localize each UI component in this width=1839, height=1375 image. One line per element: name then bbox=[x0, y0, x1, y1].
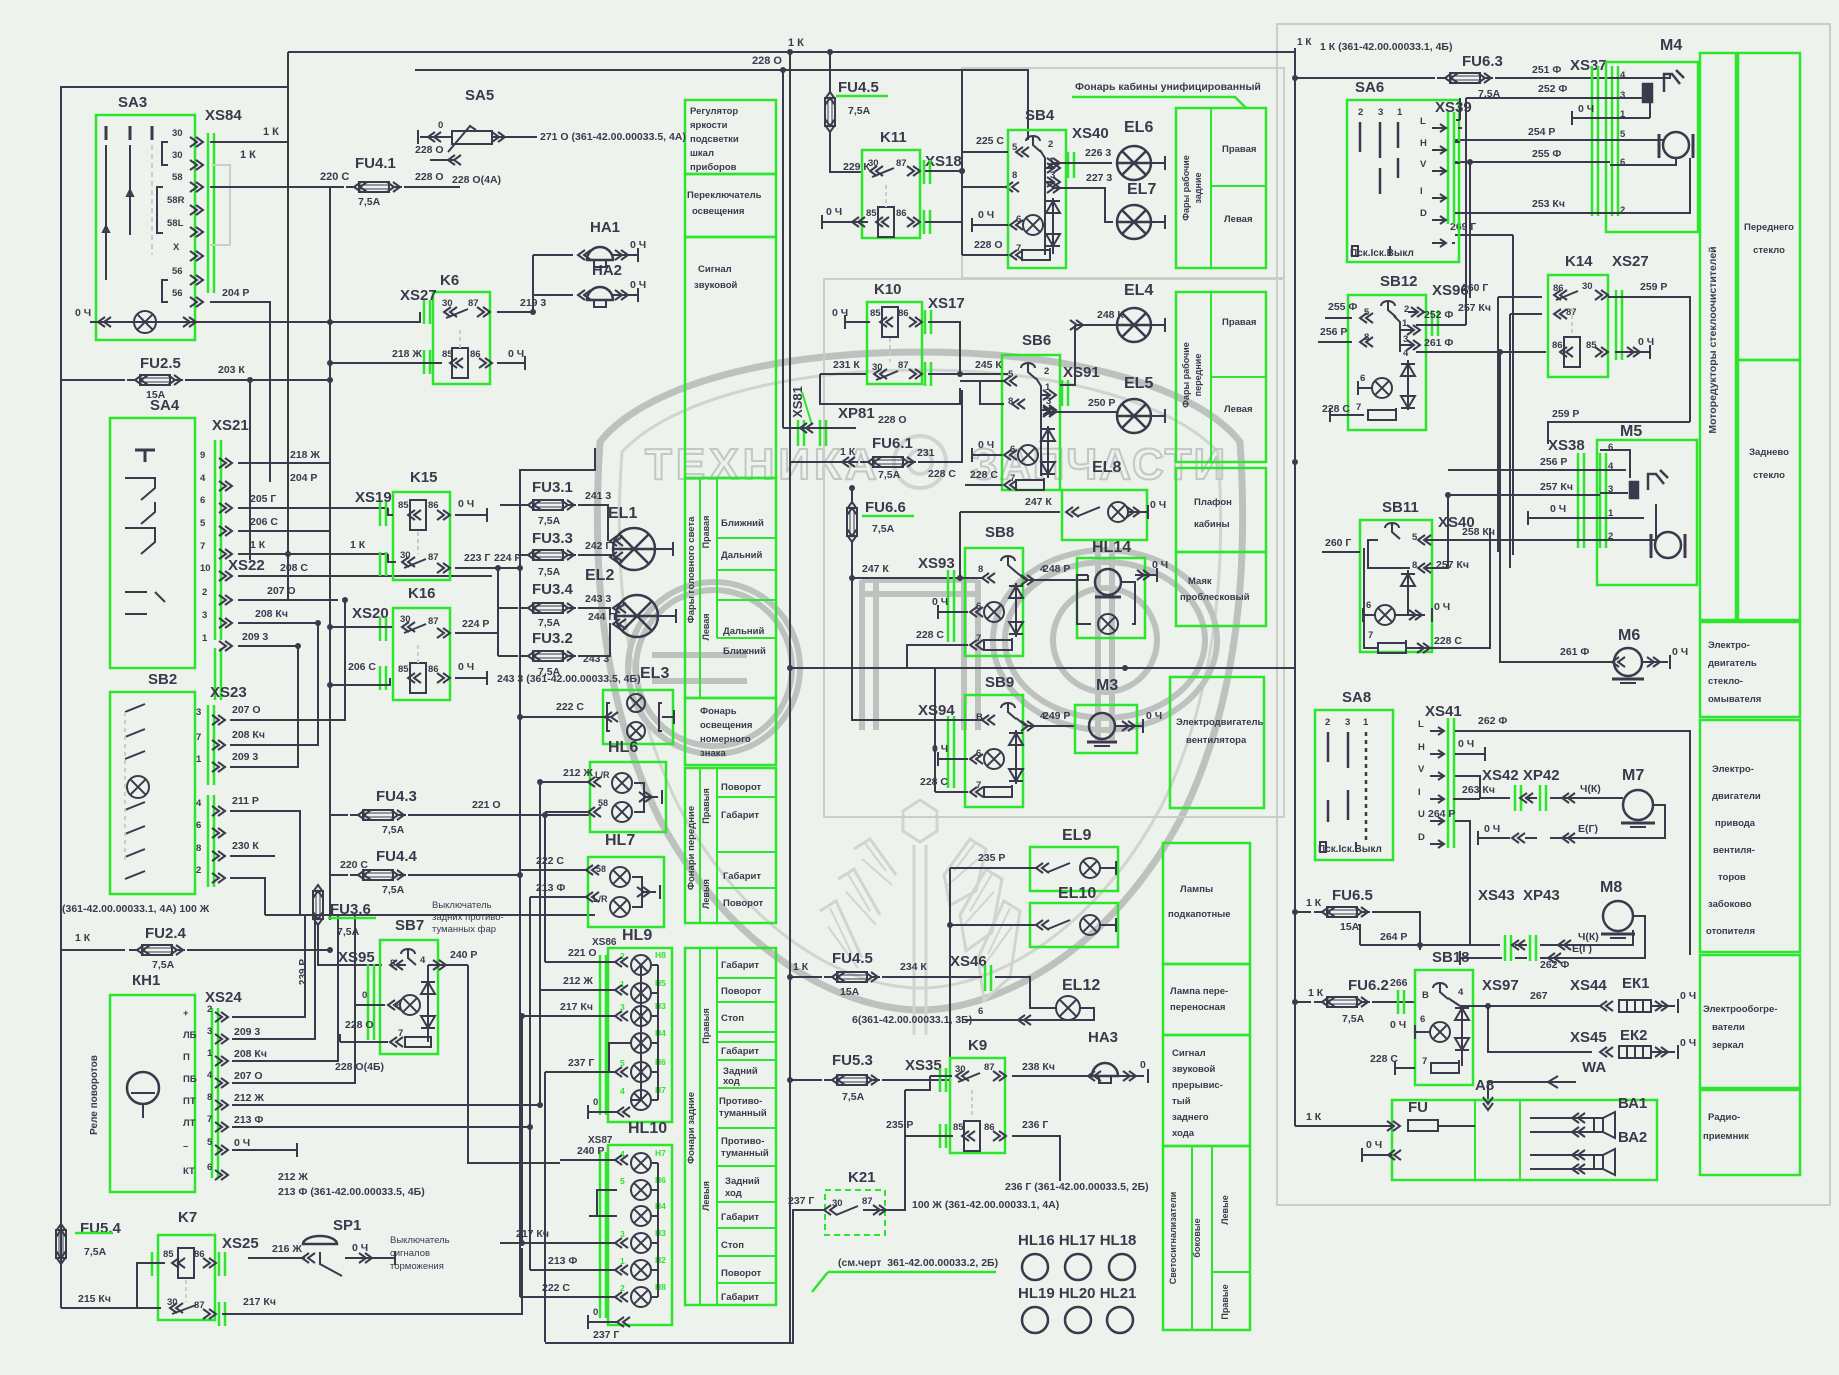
svg-text:228 О: 228 О bbox=[752, 55, 782, 67]
svg-text:Сигнал: Сигнал bbox=[698, 264, 732, 275]
diodes SB4 bbox=[1046, 201, 1060, 213]
svg-text:омывателя: омывателя bbox=[1708, 694, 1761, 705]
svg-text:FU6.3: FU6.3 bbox=[1462, 53, 1503, 70]
svg-text:0 Ч: 0 Ч bbox=[1578, 103, 1594, 115]
svg-text:Ближний: Ближний bbox=[723, 646, 766, 657]
svg-text:240 Р: 240 Р bbox=[577, 1145, 604, 1157]
svg-text:тый: тый bbox=[1172, 1096, 1191, 1107]
svg-text:EL7: EL7 bbox=[1127, 181, 1156, 198]
svg-text:58: 58 bbox=[172, 172, 183, 183]
svg-text:2: 2 bbox=[1620, 205, 1625, 216]
svg-text:FU2.5: FU2.5 bbox=[140, 355, 181, 372]
svg-text:213 Ф: 213 Ф bbox=[536, 882, 565, 894]
wire 228O branch vertical bbox=[782, 70, 784, 428]
wire 240R hl10 bbox=[560, 1159, 617, 1161]
svg-text:НА2: НА2 bbox=[592, 262, 622, 279]
svg-text:ПТ: ПТ bbox=[183, 1096, 196, 1107]
diodes SB18 bbox=[1455, 1008, 1469, 1020]
svg-text:Правые: Правые bbox=[1220, 1284, 1230, 1319]
svg-text:0 Ч: 0 Ч bbox=[1152, 559, 1168, 571]
svg-text:6: 6 bbox=[196, 820, 201, 831]
svg-text:6: 6 bbox=[200, 495, 205, 506]
svg-text:звуковой: звуковой bbox=[694, 280, 738, 291]
svg-text:262 Ф: 262 Ф bbox=[1540, 959, 1569, 971]
svg-text:Дальний: Дальний bbox=[723, 626, 765, 637]
svg-text:267: 267 bbox=[1530, 990, 1548, 1002]
svg-text:1 К: 1 К bbox=[350, 539, 366, 551]
svg-text:Задний: Задний bbox=[725, 1176, 760, 1187]
svg-text:Плафон: Плафон bbox=[1194, 497, 1232, 508]
wire 208Kch sb2 bbox=[230, 623, 318, 745]
svg-text:Поворот: Поворот bbox=[721, 986, 762, 997]
svg-text:1 К: 1 К bbox=[788, 37, 804, 49]
svg-text:7,5А: 7,5А bbox=[842, 1091, 865, 1103]
svg-text:Маяк: Маяк bbox=[1188, 576, 1212, 587]
svg-text:1: 1 bbox=[207, 1048, 213, 1059]
switch SB7 bbox=[380, 940, 438, 1054]
svg-text:D: D bbox=[1418, 832, 1425, 843]
label cell beacon bbox=[1176, 552, 1266, 626]
svg-text:216 Ж: 216 Ж bbox=[272, 1243, 302, 1255]
label cell portable lamp bbox=[1163, 964, 1250, 1035]
relay K9 bbox=[950, 1058, 1005, 1153]
svg-text:4: 4 bbox=[1458, 987, 1464, 998]
svg-text:7,5А: 7,5А bbox=[538, 515, 561, 527]
svg-text:FU3.2: FU3.2 bbox=[532, 630, 573, 647]
svg-text:0 Ч: 0 Ч bbox=[1680, 990, 1696, 1002]
svg-text:Фары рабочие: Фары рабочие bbox=[1181, 155, 1191, 220]
svg-text:5: 5 bbox=[620, 1176, 625, 1186]
wire 205G bbox=[238, 507, 388, 509]
svg-text:номерного: номерного bbox=[700, 734, 751, 745]
svg-text:FU3.4: FU3.4 bbox=[532, 581, 574, 598]
wire 217Kch bbox=[222, 1248, 522, 1314]
svg-text:228 С: 228 С bbox=[916, 629, 944, 641]
label cell underhood lamps bbox=[1163, 843, 1250, 964]
wire 217Kch hl9 bbox=[522, 1015, 617, 1017]
svg-text:XS42 ХР42: XS42 ХР42 bbox=[1482, 767, 1560, 784]
wire 213F hl10 bbox=[530, 1269, 617, 1271]
svg-text:212 Ж: 212 Ж bbox=[278, 1171, 308, 1183]
svg-text:221 О: 221 О bbox=[568, 947, 597, 959]
svg-text:Ч(К): Ч(К) bbox=[1578, 931, 1599, 943]
svg-text:4: 4 bbox=[207, 1070, 213, 1081]
svg-text:56: 56 bbox=[172, 266, 183, 277]
svg-text:SP1: SP1 bbox=[333, 1217, 361, 1234]
svg-text:207 О: 207 О bbox=[232, 704, 261, 716]
svg-text:231 К: 231 К bbox=[833, 359, 860, 371]
svg-text:XS23: XS23 bbox=[210, 684, 247, 701]
svg-text:6: 6 bbox=[207, 1162, 212, 1173]
svg-text:XS17: XS17 bbox=[928, 295, 965, 312]
svg-text:Е(Г): Е(Г) bbox=[1572, 943, 1592, 955]
svg-text:Светосигнализатели: Светосигнализатели bbox=[1168, 1192, 1178, 1284]
svg-text:228 О: 228 О bbox=[878, 414, 907, 426]
svg-text:0: 0 bbox=[593, 1097, 598, 1108]
svg-text:XS97: XS97 bbox=[1482, 977, 1519, 994]
svg-text:87: 87 bbox=[428, 616, 439, 627]
svg-text:1 К: 1 К bbox=[75, 932, 91, 944]
wire L to FU line bbox=[1458, 98, 1460, 120]
svg-text:227 3: 227 3 bbox=[1086, 172, 1112, 184]
svg-text:7: 7 bbox=[976, 633, 981, 644]
resistor SB12 bbox=[1352, 414, 1364, 416]
wire K10-87 to SB6 bbox=[928, 373, 1008, 375]
svg-text:Выключатель: Выключатель bbox=[432, 900, 492, 911]
svg-text:Поворот: Поворот bbox=[721, 782, 762, 793]
svg-text:ход: ход bbox=[725, 1188, 742, 1199]
svg-text:XS93: XS93 bbox=[918, 555, 955, 572]
svg-text:XS22: XS22 bbox=[228, 557, 265, 574]
svg-text:SB6: SB6 bbox=[1022, 332, 1051, 349]
wire 257Kch k14 bbox=[1510, 314, 1542, 568]
wire 208C bbox=[238, 575, 492, 577]
label table rear lights bbox=[685, 948, 776, 1305]
svg-text:Н3: Н3 bbox=[655, 1228, 666, 1238]
svg-text:(361-42.00.00033.1, 4А) 100 Ж: (361-42.00.00033.1, 4А) 100 Ж bbox=[62, 903, 210, 915]
svg-text:228 О: 228 О bbox=[415, 144, 444, 156]
svg-text:5: 5 bbox=[620, 1058, 625, 1068]
svg-text:261 Ф: 261 Ф bbox=[1560, 646, 1589, 658]
label cell light switch bbox=[685, 174, 776, 237]
label table working front bbox=[1176, 292, 1266, 462]
svg-text:Ближний: Ближний bbox=[721, 518, 764, 529]
watermark shield + logo bbox=[597, 352, 1242, 1035]
svg-text:209 3: 209 3 bbox=[232, 751, 258, 763]
svg-text:242 Г: 242 Г bbox=[585, 540, 611, 552]
svg-text:100 Ж (361-42.00.00033.1, 4А): 100 Ж (361-42.00.00033.1, 4А) bbox=[912, 1199, 1059, 1211]
svg-text:М7: М7 bbox=[1622, 767, 1644, 784]
wire 0Ch K16 bbox=[455, 677, 487, 679]
svg-text:224 Р: 224 Р bbox=[462, 618, 489, 630]
diodes SB7 bbox=[421, 982, 435, 994]
svg-text:Левая: Левая bbox=[1224, 214, 1253, 225]
svg-text:Левая: Левая bbox=[701, 614, 711, 641]
svg-text:263 Кч: 263 Кч bbox=[1462, 784, 1495, 796]
wire vertical right 1K x1295 bbox=[1294, 48, 1296, 1126]
svg-text:0 Ч: 0 Ч bbox=[1680, 1037, 1696, 1049]
svg-text:Н5: Н5 bbox=[655, 978, 666, 988]
label cell side markers bbox=[1163, 1146, 1250, 1330]
wire 0Ch a8 bbox=[1362, 1154, 1392, 1156]
wire 224R K16 bbox=[455, 620, 498, 633]
svg-text:XS43 ХР43: XS43 ХР43 bbox=[1478, 887, 1560, 904]
svg-text:FU6.6: FU6.6 bbox=[865, 499, 906, 516]
svg-text:зеркал: зеркал bbox=[1712, 1040, 1744, 1051]
svg-text:EL8: EL8 bbox=[1092, 459, 1121, 476]
svg-text:222 С: 222 С bbox=[556, 701, 584, 713]
svg-text:7: 7 bbox=[207, 1114, 212, 1125]
svg-text:251 Ф: 251 Ф bbox=[1532, 64, 1561, 76]
svg-text:4: 4 bbox=[1620, 70, 1626, 81]
svg-text:87: 87 bbox=[896, 158, 907, 169]
svg-text:257 Кч: 257 Кч bbox=[1540, 481, 1573, 493]
svg-text:XS21: XS21 bbox=[212, 417, 249, 434]
svg-text:Фары рабочие: Фары рабочие bbox=[1181, 342, 1191, 407]
wire 1K to K15-30 bbox=[388, 554, 396, 562]
svg-text:K9: K9 bbox=[968, 1037, 987, 1054]
svg-text:XS40: XS40 bbox=[1438, 514, 1475, 531]
wire 1K top bus bbox=[288, 51, 1295, 53]
svg-text:НА1: НА1 bbox=[590, 219, 620, 236]
wire 0Ch K6 bbox=[497, 362, 525, 364]
svg-text:7,5А: 7,5А bbox=[152, 959, 175, 971]
svg-text:стекло-: стекло- bbox=[1708, 676, 1743, 687]
svg-text:7,5А: 7,5А bbox=[84, 1246, 107, 1258]
label cell reverse buzzer bbox=[1163, 1035, 1250, 1146]
wire vertical x288 bbox=[287, 52, 289, 601]
svg-text:Е(Г): Е(Г) bbox=[1578, 823, 1598, 835]
svg-text:FU4.5: FU4.5 bbox=[832, 950, 873, 967]
svg-text:SA4: SA4 bbox=[150, 397, 180, 414]
svg-text:Правыя: Правыя bbox=[701, 788, 711, 823]
svg-text:3: 3 bbox=[1345, 717, 1350, 728]
svg-text:58R: 58R bbox=[167, 195, 185, 206]
svg-text:Н2: Н2 bbox=[655, 1255, 666, 1265]
svg-text:0 Ч: 0 Ч bbox=[1638, 336, 1654, 348]
svg-text:243 3 (361-42.00.00033.5, 4Б): 243 3 (361-42.00.00033.5, 4Б) bbox=[497, 673, 641, 685]
wire 0Ch K11 bbox=[822, 221, 868, 223]
svg-text:15А: 15А bbox=[1340, 921, 1360, 933]
wire 211R sb2 bbox=[230, 811, 300, 915]
wire 222C hl10 bbox=[520, 1296, 617, 1298]
gray group box - middle section bbox=[824, 279, 1284, 817]
svg-text:EL1: EL1 bbox=[608, 505, 637, 522]
svg-text:Н6: Н6 bbox=[655, 1175, 666, 1185]
svg-text:30: 30 bbox=[172, 150, 183, 161]
wire 253Kch bbox=[1455, 212, 1610, 214]
label cell dashboard dimmer bbox=[685, 100, 776, 174]
svg-text:V: V bbox=[1418, 764, 1425, 775]
svg-text:8: 8 bbox=[196, 843, 201, 854]
wire 252F bbox=[1466, 97, 1610, 99]
svg-text:7,5А: 7,5А bbox=[538, 617, 561, 629]
svg-text:2: 2 bbox=[620, 1283, 625, 1293]
svg-text:ход: ход bbox=[723, 1076, 740, 1087]
svg-text:FU4.4: FU4.4 bbox=[376, 848, 418, 865]
wire 0Ch K10 bbox=[845, 321, 870, 323]
svg-text:230 К: 230 К bbox=[232, 840, 259, 852]
svg-text:М8: М8 bbox=[1600, 879, 1622, 896]
svg-text:2: 2 bbox=[1048, 139, 1053, 150]
svg-text:0 Ч: 0 Ч bbox=[1366, 1139, 1382, 1151]
svg-text:236 Г: 236 Г bbox=[1022, 1119, 1048, 1131]
svg-text:M4: M4 bbox=[1660, 37, 1682, 54]
svg-text:K16: K16 bbox=[408, 585, 436, 602]
svg-text:213 Ф: 213 Ф bbox=[548, 1255, 577, 1267]
wire vertical 1K middle bbox=[789, 52, 791, 1342]
svg-text:ватели: ватели bbox=[1712, 1022, 1745, 1033]
svg-text:FU3.6: FU3.6 bbox=[330, 901, 371, 918]
svg-text:58: 58 bbox=[598, 798, 608, 808]
svg-text:HL16 HL17 HL18: HL16 HL17 HL18 bbox=[1018, 1232, 1136, 1249]
wire 0Ch M4 bbox=[1572, 117, 1610, 119]
svg-text:2: 2 bbox=[1404, 304, 1409, 315]
svg-text:боковые: боковые bbox=[1192, 1218, 1202, 1257]
label cell fan motor bbox=[1170, 677, 1264, 808]
svg-text:228 С: 228 С bbox=[1434, 635, 1462, 647]
svg-text:3: 3 bbox=[202, 610, 207, 621]
svg-text:0 Ч: 0 Ч bbox=[1390, 1019, 1406, 1031]
left border wire bbox=[61, 52, 288, 1308]
svg-text:252 Ф: 252 Ф bbox=[1538, 83, 1567, 95]
diodes SB12 bbox=[1401, 364, 1415, 376]
label cell front glass bbox=[1738, 53, 1800, 360]
svg-text:260 Г: 260 Г bbox=[1325, 537, 1351, 549]
svg-text:K15: K15 bbox=[410, 469, 438, 486]
svg-text:243 3: 243 3 bbox=[583, 653, 609, 665]
wire 260G sb11 bbox=[1322, 551, 1360, 553]
svg-text:208 Кч: 208 Кч bbox=[232, 729, 265, 741]
svg-text:2: 2 bbox=[1358, 107, 1363, 118]
bus mid horizontal bbox=[790, 667, 1295, 669]
svg-text:2: 2 bbox=[196, 865, 201, 876]
svg-text:Пск.Iск.Выкл: Пск.Iск.Выкл bbox=[1350, 248, 1414, 259]
wire 205G to K15 coil bbox=[388, 508, 393, 515]
svg-text:FU4.1: FU4.1 bbox=[355, 155, 396, 172]
svg-text:262 Ф: 262 Ф bbox=[1478, 715, 1507, 727]
svg-text:Фонарь: Фонарь bbox=[700, 706, 737, 717]
svg-text:Выключатель: Выключатель bbox=[390, 1235, 450, 1246]
svg-text:260 Г: 260 Г bbox=[1462, 282, 1488, 294]
wire 250R to EL5 bbox=[1048, 411, 1110, 413]
svg-text:XS27: XS27 bbox=[1612, 253, 1649, 270]
svg-text:1 К: 1 К bbox=[840, 446, 856, 458]
wire 236G bbox=[1012, 1136, 1060, 1181]
svg-text:7: 7 bbox=[1016, 243, 1021, 254]
svg-text:U: U bbox=[1418, 809, 1425, 820]
svg-text:Фары головного света: Фары головного света bbox=[686, 516, 697, 624]
svg-text:Правая: Правая bbox=[1222, 317, 1256, 328]
svg-text:217 Кч: 217 Кч bbox=[516, 1228, 549, 1240]
svg-text:Н6: Н6 bbox=[655, 1057, 666, 1067]
svg-text:0 Ч: 0 Ч bbox=[1150, 499, 1166, 511]
svg-text:торможения: торможения bbox=[390, 1261, 444, 1272]
wire pin2 sb2 bbox=[230, 878, 265, 915]
svg-text:87: 87 bbox=[862, 1196, 873, 1207]
svg-text:7,5А: 7,5А bbox=[382, 884, 405, 896]
svg-text:0 Ч: 0 Ч bbox=[234, 1137, 250, 1149]
svg-text:КН1: КН1 bbox=[132, 972, 160, 989]
wire 0Ch xs41 bbox=[1455, 753, 1485, 755]
svg-text:XS81: XS81 bbox=[790, 386, 805, 418]
svg-text:Габарит: Габарит bbox=[721, 1292, 759, 1303]
svg-text:Фонари передние: Фонари передние bbox=[686, 806, 697, 890]
svg-text:8: 8 bbox=[1412, 560, 1417, 571]
svg-text:6: 6 bbox=[1016, 214, 1021, 225]
svg-text:I: I bbox=[1418, 787, 1421, 798]
svg-text:6: 6 bbox=[976, 748, 981, 759]
svg-text:0 Ч: 0 Ч bbox=[932, 596, 948, 608]
wire 1K to K15 bbox=[238, 553, 388, 555]
svg-text:7,5А: 7,5А bbox=[878, 469, 901, 481]
svg-text:228 О: 228 О bbox=[415, 171, 444, 183]
svg-text:SA5: SA5 bbox=[465, 87, 494, 104]
wire 262F bbox=[1455, 731, 1690, 955]
svg-text:FU6.1: FU6.1 bbox=[872, 435, 913, 452]
wire 228 O bus bbox=[415, 70, 1028, 140]
svg-text:знака: знака bbox=[700, 748, 726, 759]
svg-text:0 Ч: 0 Ч bbox=[1672, 646, 1688, 658]
svg-text:212 Ж: 212 Ж bbox=[234, 1092, 264, 1104]
svg-text:259 Р: 259 Р bbox=[1640, 281, 1667, 293]
svg-text:8: 8 bbox=[1012, 170, 1017, 181]
wire 206C to K16 coil bbox=[330, 678, 390, 685]
diodes SB9 bbox=[1009, 733, 1023, 745]
svg-text:30: 30 bbox=[172, 128, 183, 139]
svg-text:FU6.2: FU6.2 bbox=[1348, 977, 1389, 994]
svg-text:85: 85 bbox=[1586, 340, 1597, 351]
svg-text:Противо-: Противо- bbox=[719, 1096, 762, 1107]
svg-text:HL9: HL9 bbox=[622, 927, 652, 944]
wire 209-3 bbox=[238, 645, 298, 647]
relay K7 bbox=[158, 1235, 215, 1320]
svg-text:HL14: HL14 bbox=[1092, 539, 1131, 556]
svg-text:85: 85 bbox=[163, 1249, 174, 1260]
svg-text:Н: Н bbox=[1418, 742, 1425, 753]
svg-text:237 Г: 237 Г bbox=[568, 1057, 594, 1069]
wire 209-3 kh1 bbox=[232, 915, 315, 1039]
svg-text:6: 6 bbox=[978, 1006, 983, 1017]
svg-text:I: I bbox=[1420, 186, 1423, 197]
svg-text:15А: 15А bbox=[840, 986, 860, 998]
svg-text:Левые: Левые bbox=[1220, 1195, 1230, 1225]
svg-text:3: 3 bbox=[1620, 90, 1625, 101]
wire 257Kch m5 bbox=[1448, 494, 1600, 496]
svg-text:FU3.3: FU3.3 bbox=[532, 530, 573, 547]
svg-text:228 С: 228 С bbox=[1322, 403, 1350, 415]
svg-text:туманный: туманный bbox=[719, 1108, 767, 1119]
switch SB4 bbox=[1008, 130, 1066, 268]
svg-text:209 3: 209 3 bbox=[234, 1026, 260, 1038]
svg-text:228 О(4А): 228 О(4А) bbox=[452, 174, 501, 186]
wire 207O kh1 bbox=[232, 915, 355, 1083]
wire 6 (361..) bbox=[965, 1019, 1020, 1021]
relay K21 bbox=[825, 1190, 885, 1235]
svg-text:Левыя: Левыя bbox=[701, 879, 711, 909]
svg-text:252 Ф: 252 Ф bbox=[1424, 309, 1453, 321]
svg-text:Моторедукторы стеклоочистителе: Моторедукторы стеклоочистителей bbox=[1707, 246, 1719, 433]
svg-text:10: 10 bbox=[200, 563, 211, 574]
label cell cab plafond bbox=[1176, 468, 1266, 552]
svg-text:222 С: 222 С bbox=[542, 1282, 570, 1294]
svg-text:0 Ч: 0 Ч bbox=[1434, 601, 1450, 613]
svg-text:85: 85 bbox=[870, 308, 881, 319]
wire 230K sb2 bbox=[230, 855, 275, 857]
svg-text:0 Ч: 0 Ч bbox=[75, 307, 91, 319]
svg-text:SB18: SB18 bbox=[1432, 949, 1470, 966]
svg-text:204 Р: 204 Р bbox=[290, 472, 317, 484]
svg-text:XS41: XS41 bbox=[1425, 703, 1462, 720]
svg-text:206 С: 206 С bbox=[348, 661, 376, 673]
svg-text:Переключатель: Переключатель bbox=[687, 190, 762, 201]
svg-text:SA8: SA8 bbox=[1342, 689, 1371, 706]
svg-text:XS20: XS20 bbox=[352, 605, 389, 622]
svg-text:212 Ж: 212 Ж bbox=[563, 975, 593, 987]
wire 226-3 to EL6 bbox=[1052, 162, 1112, 164]
svg-text:FU3.1: FU3.1 bbox=[532, 479, 573, 496]
connector XS37 rails bbox=[1592, 66, 1598, 216]
svg-text:Н4: Н4 bbox=[655, 1028, 666, 1038]
svg-text:247 К: 247 К bbox=[862, 563, 889, 575]
svg-text:1: 1 bbox=[202, 633, 208, 644]
svg-text:FU4.3: FU4.3 bbox=[376, 788, 417, 805]
label cell heater fans bbox=[1700, 720, 1800, 952]
wire hl10 pin5 bbox=[597, 1190, 617, 1216]
relay KH1 turn signals bbox=[110, 995, 195, 1192]
svg-text:6: 6 bbox=[1360, 373, 1365, 384]
svg-text:EL4: EL4 bbox=[1124, 282, 1153, 299]
